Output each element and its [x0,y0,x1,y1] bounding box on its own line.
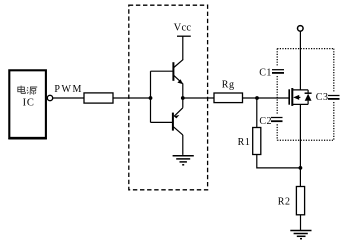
svg-text:IC: IC [23,97,35,108]
transistor Q1 (NPN upper) [173,59,183,98]
wire drain [299,31,301,90]
transistor Q2 (PNP lower) [173,98,183,155]
wire base column [150,71,152,122]
power IC box [9,70,46,138]
MOSFET Q3 [289,88,311,106]
wire Vcc stem [182,36,184,60]
node gate junction [255,96,259,100]
drain terminal circle [298,26,304,32]
wire driver output to Rg [183,97,214,99]
capacitor C1 [272,70,284,73]
wire R1 bottom to source column [257,155,301,168]
svg-text:R1: R1 [238,137,251,148]
wire resistor to driver input [113,97,151,99]
wire R2 to ground [300,215,302,231]
svg-text:Vcc: Vcc [174,22,192,33]
svg-text:C1: C1 [259,67,272,78]
wire PWM to series resistor [53,97,85,99]
label 电 [18,86,26,94]
node output junction [181,96,185,100]
node input junction [149,96,153,100]
wire source [299,104,301,186]
svg-text:C2: C2 [259,116,272,127]
capacitor C3 [328,96,340,99]
capacitor C2 [271,118,283,122]
wire gate node to R1 [256,98,258,128]
svg-text:Rg: Rg [222,79,235,90]
resistor R2 [296,187,304,215]
ground (driver stage) [173,156,194,165]
label 源 [27,87,37,95]
svg-text:C3: C3 [316,92,329,103]
resistor (PWM series, unlabeled) [84,93,113,103]
resistor Rg [214,93,243,103]
parasitic capacitance dotted box [277,49,334,141]
wire Rg to gate [243,97,289,99]
ground (source) [290,231,311,239]
resistor R1 [253,128,261,155]
node source junction [299,166,303,170]
wire Q2 base [151,121,173,123]
svg-text:R2: R2 [278,197,291,208]
wire Q1 base [151,70,174,72]
PWM output terminal circle [47,95,52,100]
driver stage dashed box [129,5,208,190]
Vcc rail bar [177,35,191,37]
svg-text:PWM: PWM [54,84,83,95]
